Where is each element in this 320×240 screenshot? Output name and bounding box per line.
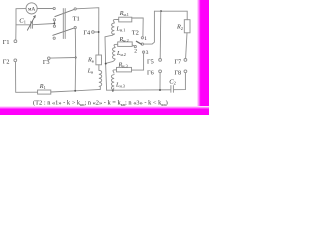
terminal G6 circle xyxy=(159,70,162,73)
switch T1 contact lower (common pair) xyxy=(53,25,55,27)
switch T1 blade upper xyxy=(55,9,74,16)
milliammeter mA xyxy=(26,3,37,14)
wire T2 common to top-right xyxy=(143,11,154,44)
wire G3 to secondary vertical xyxy=(50,57,75,60)
switch T2 blade xyxy=(136,41,141,44)
terminal G4 circle xyxy=(92,31,95,34)
switch T1 contact upper (common pair) xyxy=(53,19,55,21)
resistor R2 box xyxy=(184,20,190,33)
capacitor C1 variable arrow xyxy=(27,16,35,30)
wire R2 bottom to G7 xyxy=(186,33,187,59)
wire R1 to Lv corner xyxy=(51,89,101,92)
resistor R1 box xyxy=(38,90,51,94)
wire Rn2 left to Ln2 xyxy=(114,44,118,47)
resistor Rn3 box xyxy=(117,67,132,72)
wire G2 down and bottom-left xyxy=(16,62,38,92)
resistor Rn1 box xyxy=(119,17,132,22)
node G3 junction xyxy=(75,57,77,59)
wire contact2 to Rn2 xyxy=(132,45,134,46)
wire C1 branch xyxy=(16,24,30,26)
wire tick contact1 to junction xyxy=(53,21,55,25)
wire secondary vertical from T1 lower pivot xyxy=(74,29,77,91)
resistor Rv box xyxy=(96,55,102,65)
wire bus B vertical xyxy=(105,37,107,90)
switch T2 contact 3 xyxy=(143,51,145,53)
resistor Rn2 box xyxy=(118,42,133,47)
wire Rn3 left to Ln3 xyxy=(113,70,117,73)
svg-text:2: 2 xyxy=(134,49,137,55)
switch T1 pivot upper xyxy=(74,8,76,10)
wire bus C lower (G6 down) xyxy=(159,73,161,90)
wire Ln3 bottom xyxy=(113,88,114,91)
wire bottom-right xyxy=(107,89,171,91)
node Ln2 bus junction xyxy=(105,63,107,65)
svg-text:Г8: Г8 xyxy=(174,70,181,77)
node Ln3 bottom junction xyxy=(112,90,114,92)
terminal G1 circle xyxy=(14,40,17,43)
switch T1 blade lower xyxy=(53,28,75,35)
terminal G3 circle xyxy=(48,57,51,60)
svg-text:3: 3 xyxy=(146,50,149,56)
wire G8 down to C2 xyxy=(174,73,186,90)
terminal G7 circle xyxy=(184,59,187,62)
node C1 feed junction xyxy=(53,22,55,24)
svg-text:Г4: Г4 xyxy=(83,30,90,37)
scan edge stripe bottom xyxy=(0,106,209,109)
switch T2 contact 1 xyxy=(141,37,143,39)
wire bus C upper (to G5) xyxy=(159,11,162,58)
svg-text:Г2: Г2 xyxy=(3,58,10,65)
wire R2 top xyxy=(186,11,188,20)
wire secondary top xyxy=(76,8,99,55)
wire G1 up (part of left vertical) xyxy=(15,25,17,40)
node G4 junction on bus A xyxy=(98,31,100,33)
terminal G2 circle xyxy=(14,59,17,62)
svg-text:1: 1 xyxy=(144,36,147,42)
capacitor C1 plates xyxy=(31,21,33,28)
node secondary-bottom junction xyxy=(74,90,76,92)
node bus C top junction xyxy=(160,10,162,12)
scan edge stripe right xyxy=(197,0,201,115)
svg-text:Г5: Г5 xyxy=(147,59,154,66)
svg-text:Т1: Т1 xyxy=(73,15,80,22)
inductor Lv coil xyxy=(99,70,102,86)
wire contact3 to Rn3 xyxy=(132,53,144,70)
inductor Ln3 coil xyxy=(111,75,114,90)
svg-text:Г3: Г3 xyxy=(43,59,50,66)
inductor Ln2 coil xyxy=(113,48,116,60)
svg-text:Г7: Г7 xyxy=(174,59,181,66)
switch T2 contact 2 xyxy=(134,46,136,48)
wire meter to switch contact xyxy=(37,8,53,10)
wire Rv to Lv xyxy=(98,65,100,71)
switch T1 lower-left empty contact xyxy=(53,37,55,39)
node G6 bottom junction xyxy=(159,89,161,91)
inductor Ln1 coil xyxy=(112,23,115,35)
svg-text:мА: мА xyxy=(28,6,35,12)
svg-text:Т2: Т2 xyxy=(132,29,139,36)
wire top-left loop xyxy=(16,9,26,25)
T1 core bar right xyxy=(64,9,66,39)
switch T1 top fixed contact xyxy=(53,7,55,9)
svg-text:Г6: Г6 xyxy=(147,70,154,77)
capacitor C2 plates xyxy=(171,86,174,93)
wire G4 to bus A xyxy=(94,31,97,33)
wire Rn1 right to T2 contact 1 xyxy=(132,18,143,37)
wire Ln2 bottom to bus B xyxy=(106,59,116,63)
wire C1 to T1 common xyxy=(33,24,54,25)
terminal G8 circle xyxy=(184,70,187,73)
svg-text:Г1: Г1 xyxy=(3,39,10,46)
T1 core bar left xyxy=(62,9,64,39)
wire top-right horizontal xyxy=(154,10,187,12)
switch T1 pivot lower xyxy=(74,27,76,29)
wire Lv bottom xyxy=(99,86,101,89)
svg-text:(Т2 : n «1» - k > kкр; n «2» -: (Т2 : n «1» - k > kкр; n «2» - k = kкр; … xyxy=(33,100,168,107)
switch T2 common contact xyxy=(141,43,143,45)
wire Rn1 left to Ln1 xyxy=(113,20,118,23)
wire Ln1 bottom to bus B xyxy=(105,34,114,37)
terminal G5 circle xyxy=(159,59,162,62)
